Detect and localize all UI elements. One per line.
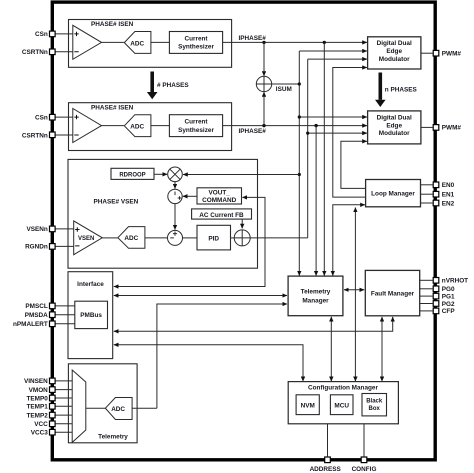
node junction mod2 in1 (298, 115, 301, 118)
svg-text:VINSEN: VINSEN (24, 378, 48, 385)
wire ISUM to modulator1 in2 (299, 50, 367, 52)
RDROOP box (111, 168, 154, 179)
wire comp to modulator1 in3 (308, 58, 367, 60)
wire VSENn to VSEN amp (55, 228, 73, 230)
summer2 circle (168, 230, 183, 245)
NVM box (296, 395, 319, 415)
svg-text:PWM#: PWM# (442, 125, 462, 132)
wire Loop Manager to EN2 pad (421, 202, 434, 204)
svg-text:PHASE# VSEN: PHASE# VSEN (94, 198, 139, 205)
summing circle ISUM (256, 76, 271, 91)
MCU box (330, 395, 353, 415)
pad nVRHOT (433, 278, 439, 284)
svg-text:Manager: Manager (302, 297, 329, 304)
wire opamp2 to ADC2 (102, 125, 124, 127)
svg-text:Interface: Interface (77, 281, 104, 288)
svg-text:PID: PID (208, 235, 219, 242)
svg-text:ADC: ADC (130, 124, 144, 131)
svg-text:PHASE# ISEN: PHASE# ISEN (91, 104, 134, 111)
wire VOUT_COMMAND to summer1 (183, 195, 197, 197)
svg-text:Modulator: Modulator (379, 130, 410, 137)
wire VCC to mux (55, 423, 72, 425)
wire Fault Manager to PG1 pad (420, 295, 433, 297)
pad nPMALERT (50, 321, 56, 327)
wire loop manager to modulator1 in4 (333, 68, 367, 198)
node junction on IPHASE#1 (262, 41, 265, 44)
wire CSRTNn1 to opamp (55, 51, 72, 53)
svg-text:ADC: ADC (111, 406, 125, 413)
wire telemetry ADC up to Telemetry Manager (157, 304, 287, 408)
Digital Dual Edge Modulator 2 (368, 111, 421, 144)
wire IPHASE#2 branch up into ISUM (263, 92, 265, 126)
pad CFP (433, 308, 439, 314)
multiplier circle (168, 167, 183, 182)
wire summer2 to PID (183, 237, 198, 239)
PMBus box (75, 301, 108, 328)
Current Synthesizer 1 (169, 32, 222, 54)
wire IPHASE#1 branch down to Telemetry Manager (323, 42, 325, 275)
node junction comp in3 (306, 132, 309, 135)
ADC 1 (124, 32, 151, 54)
svg-text:Current: Current (184, 119, 208, 126)
wire modulator2 to PWM# pad (421, 126, 433, 128)
svg-text:VOUT_: VOUT_ (209, 190, 231, 197)
svg-text:ADDRESS: ADDRESS (310, 466, 342, 473)
svg-text:PMSCL: PMSCL (25, 303, 47, 310)
wire ISUM to modulator2 in1 (299, 116, 367, 118)
chip outer border (52, 2, 435, 460)
svg-text:VMON: VMON (29, 387, 49, 394)
wire Configuration Manager to CONFIG pad (363, 424, 365, 457)
wire telemetry ADC output (132, 407, 157, 409)
wire Fault Manager to PG2 pad (420, 303, 433, 305)
svg-text:Synthesizer: Synthesizer (178, 127, 214, 134)
wire ISUM output (272, 83, 300, 85)
svg-text:TEMP0: TEMP0 (26, 395, 48, 402)
wire loop manager bottom to configuration manager (354, 208, 356, 382)
pad VCC3 (50, 429, 56, 435)
pad CSn2 (50, 114, 56, 120)
n PHASES thick arrow (375, 73, 417, 108)
wire Fault Manager to PG0 pad (420, 288, 433, 290)
svg-text:Fault Manager: Fault Manager (371, 291, 415, 298)
svg-text:CSRTNn: CSRTNn (22, 132, 48, 139)
svg-text:AC Current FB: AC Current FB (199, 212, 244, 219)
svg-text:Box: Box (369, 406, 381, 412)
svg-text:nPMALERT: nPMALERT (13, 321, 48, 328)
svg-text:Edge: Edge (386, 122, 402, 129)
wire VOUT_COMMAND feed from Interface riser (114, 197, 265, 286)
pad PG2 (433, 301, 439, 307)
svg-text:IPHASE#: IPHASE# (239, 35, 267, 42)
wire mux to telemetry ADC (86, 407, 106, 409)
pad PWM# (433, 50, 439, 56)
wire IPHASE#2 to modulator 2 input 2 (223, 125, 367, 127)
pad EN0 (433, 182, 439, 188)
svg-text:ADC: ADC (130, 40, 144, 47)
pad CSRTNn2 (50, 132, 56, 138)
svg-text:Edge: Edge (386, 48, 402, 55)
wire RGNDn to VSEN amp (55, 245, 73, 247)
svg-text:Telemetry: Telemetry (98, 433, 128, 440)
wire nPMALERT to PMBus (55, 323, 74, 325)
pad CONFIG (361, 457, 367, 463)
wire Interface to Configuration Manager (114, 345, 303, 381)
wire PID to summer3 (231, 237, 235, 239)
svg-text:RDROOP: RDROOP (119, 172, 145, 178)
wire PMSDA to PMBus (55, 314, 74, 316)
wire ISUM to multiplier (183, 174, 299, 176)
pad VINSEN (50, 378, 56, 384)
svg-text:CSn: CSn (35, 114, 48, 121)
pad CSn (50, 31, 56, 37)
block PHASE# ISEN 1 box (69, 20, 232, 68)
svg-text:nVRHOT: nVRHOT (442, 278, 468, 285)
ADC telemetry (105, 398, 132, 420)
wire CSn1 to opamp (55, 33, 72, 35)
wire Fault Manager to Configuration Manager (381, 317, 383, 381)
wire TEMP1 to mux (55, 405, 72, 407)
svg-text:CSn: CSn (35, 31, 48, 38)
ADC VSEN (118, 227, 145, 249)
wire ADC1 to Current Synthesizer 1 (151, 41, 169, 43)
wire TM to FM double arrow (344, 289, 364, 291)
svg-text:EN0: EN0 (442, 182, 455, 189)
wire Loop Manager to EN0 pad (421, 184, 434, 186)
wire Fault Manager to CFP pad (420, 310, 433, 312)
wire AC Current FB to summer3 (241, 219, 243, 228)
node ISUM junction at out (298, 82, 301, 85)
pin labels left side (13, 31, 48, 436)
svg-text:VCC: VCC (34, 421, 48, 428)
wire TEMP2 to mux (55, 414, 72, 416)
svg-text:Synthesizer: Synthesizer (178, 44, 214, 51)
wire VSEN amp to ADC (102, 237, 117, 239)
svg-text:PHASE# ISEN: PHASE# ISEN (91, 21, 134, 28)
wire comp to modulator2 in3 (308, 132, 367, 134)
wire loop manager to modulator2 in4 (341, 141, 367, 188)
svg-text:VSEN: VSEN (78, 236, 94, 242)
wire Configuration Manager to ADDRESS pad (327, 424, 329, 457)
svg-text:n PHASES: n PHASES (385, 86, 418, 93)
svg-text:CSRTNn: CSRTNn (22, 49, 48, 56)
pad VCC (50, 421, 56, 427)
wire RDROOP to multiplier (154, 173, 167, 175)
node junction droop tap (298, 173, 301, 176)
pad PG0 (433, 286, 439, 292)
svg-text:NVM: NVM (301, 402, 315, 409)
wire IPHASE#1 branch down into ISUM (263, 42, 265, 76)
wire ADC2 to Current Synthesizer 2 (151, 125, 169, 127)
svg-text:# PHASES: # PHASES (157, 82, 189, 89)
wire comp output vertical x=307.7 (307, 59, 309, 238)
mux trapezoid (72, 370, 86, 442)
pad PG1 (433, 293, 439, 299)
svg-text:TEMP2: TEMP2 (26, 412, 48, 419)
op-amp VSEN (74, 221, 103, 255)
pad ADDRESS (325, 457, 331, 463)
node junction on IPHASE#2 (262, 124, 265, 127)
wire loop manager input from bus (333, 205, 365, 276)
wire Interface to Telemetry Manager bidirectional (114, 295, 287, 297)
block PHASE# ISEN 2 box (69, 103, 232, 151)
svg-text:VSENn: VSENn (26, 226, 47, 233)
AC Current FB box (192, 209, 252, 219)
svg-text:ADC: ADC (124, 235, 138, 242)
svg-text:Digital Dual: Digital Dual (377, 115, 412, 122)
wire ADC to summer2 (145, 237, 168, 239)
svg-text:TEMP1: TEMP1 (26, 404, 48, 411)
pad EN2 (433, 200, 439, 206)
wire modulator1 to PWM# pad (421, 52, 433, 54)
svg-text:EN1: EN1 (442, 192, 455, 199)
Digital Dual Edge Modulator 1 (368, 37, 421, 69)
Current Synthesizer 2 (169, 115, 222, 137)
summer3 circle (234, 230, 250, 246)
summer1 circle (168, 189, 182, 203)
svg-text:Current: Current (184, 35, 208, 42)
pad TEMP2 (50, 412, 56, 418)
wire PMSCL to PMBus (55, 305, 74, 307)
VOUT_COMMAND box (197, 188, 242, 204)
pin labels bottom (310, 466, 377, 473)
svg-text:PG0: PG0 (442, 286, 455, 293)
node junction IPHASE#2 telemetry tap (314, 124, 317, 127)
# PHASES thick arrow (147, 72, 189, 100)
wire VCC3 to mux (55, 431, 72, 433)
svg-text:PG2: PG2 (442, 301, 455, 308)
wire IPHASE#1 to modulator 1 input 1 (223, 41, 367, 43)
wire VMON to mux (55, 389, 72, 391)
svg-text:IPHASE#: IPHASE# (239, 128, 267, 135)
node junction IPHASE#1 telemetry tap (323, 41, 326, 44)
svg-text:Telemetry: Telemetry (301, 289, 331, 296)
pad PMSDA (50, 312, 56, 318)
svg-text:ISUM: ISUM (276, 86, 292, 93)
svg-text:CONFIG: CONFIG (352, 466, 377, 473)
svg-text:Configuration Manager: Configuration Manager (308, 385, 378, 392)
wire VINSEN to mux (55, 380, 72, 382)
svg-text:PG1: PG1 (442, 293, 455, 300)
svg-text:Loop Manager: Loop Manager (371, 191, 415, 198)
PID box (197, 225, 231, 250)
pad TEMP0 (50, 395, 56, 401)
svg-text:PMSDA: PMSDA (25, 312, 48, 319)
wire summer1 to summer2 (174, 204, 176, 230)
svg-text:Black: Black (366, 399, 383, 405)
wire IPHASE#2 branch down to Telemetry Manager (315, 126, 317, 276)
wire ISUM net vertical x=299.3 (298, 51, 300, 276)
wire opamp1 to ADC1 (102, 41, 124, 43)
Black Box box (362, 394, 387, 416)
wire Telemetry Manager bottom to Configuration Manager (330, 317, 332, 381)
wire Loop Manager to EN1 pad (421, 193, 434, 195)
svg-text:RGNDn: RGNDn (25, 244, 48, 251)
pad PMSCL (50, 303, 56, 309)
wire TEMP0 to mux (55, 397, 72, 399)
pad VMON (50, 387, 56, 393)
svg-text:PMBus: PMBus (80, 312, 102, 319)
svg-text:PWM#: PWM# (442, 51, 462, 58)
svg-text:Modulator: Modulator (379, 56, 410, 63)
wire comp output to bundle (250, 237, 308, 239)
wire Fault Manager to nVRHOT pad (420, 279, 433, 281)
wire multiplier to summer1 (174, 182, 176, 189)
block PHASE# VSEN box (68, 159, 258, 268)
svg-text:Digital Dual: Digital Dual (377, 40, 412, 47)
wire Interface to Fault Manager bottom (114, 317, 393, 331)
wire CSRTNn2 to opamp (55, 134, 72, 136)
pin labels right side (442, 51, 468, 316)
ADC 2 (124, 115, 151, 137)
svg-text:EN2: EN2 (442, 200, 455, 207)
pad RGNDn (50, 244, 56, 250)
svg-text:MCU: MCU (334, 402, 349, 409)
svg-text:COMMAND: COMMAND (202, 197, 236, 204)
wire CSn2 to opamp (55, 116, 72, 118)
op-amp ISEN2 (73, 109, 102, 143)
svg-text:VCC3: VCC3 (31, 430, 48, 437)
pad CSRTNn (50, 49, 56, 55)
op-amp ISEN1 (73, 25, 102, 59)
pad VSENn (50, 226, 56, 232)
pad TEMP1 (50, 404, 56, 410)
pad PWM#2 (433, 125, 439, 131)
pad EN1 (433, 191, 439, 197)
svg-text:CFP: CFP (442, 308, 456, 315)
